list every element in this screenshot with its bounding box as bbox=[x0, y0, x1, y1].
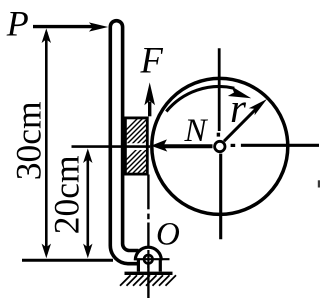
svg-text:30cm: 30cm bbox=[9, 101, 49, 180]
pivot support dome bbox=[135, 247, 161, 260]
force N arrow bbox=[162, 144, 213, 148]
rotation arrow (arc) bbox=[166, 87, 234, 112]
svg-text:P: P bbox=[6, 3, 29, 43]
ground hatching bbox=[120, 275, 176, 286]
center line vertical lower bbox=[219, 154, 222, 240]
extension line at N level (20cm top reference) bbox=[72, 145, 151, 148]
center line horizontal right bbox=[241, 144, 319, 147]
svg-text:F: F bbox=[140, 40, 164, 81]
svg-text:r: r bbox=[230, 85, 247, 131]
lever (bent bar) bbox=[110, 21, 138, 264]
pin cross horizontal bbox=[134, 258, 170, 260]
svg-text:N: N bbox=[184, 113, 209, 149]
dimension 30cm line bbox=[45, 32, 48, 254]
extension line at O level (bottom reference) bbox=[22, 259, 113, 262]
brake pad bbox=[125, 118, 147, 174]
wheel bbox=[152, 78, 288, 214]
svg-text:20cm: 20cm bbox=[47, 155, 87, 234]
stray mark bbox=[318, 180, 320, 187]
force P arrow bbox=[33, 25, 94, 28]
radius r arrow bbox=[224, 109, 257, 142]
center line vertical dash bbox=[217, 133, 220, 137]
force F arrow bbox=[148, 102, 151, 117]
pin bbox=[144, 255, 153, 264]
wheel hub bbox=[215, 141, 225, 151]
pivot center line (dash-dot) bbox=[147, 175, 149, 210]
center line horizontal dash bbox=[231, 144, 236, 147]
center line vertical upper bbox=[218, 48, 221, 131]
pivot support legs bbox=[137, 260, 140, 272]
rotation arrowhead bbox=[228, 86, 251, 98]
pin cross vertical (over) bbox=[147, 250, 149, 268]
support base bbox=[125, 272, 173, 275]
svg-text:O: O bbox=[156, 216, 180, 252]
dimension 20cm line bbox=[87, 152, 90, 254]
